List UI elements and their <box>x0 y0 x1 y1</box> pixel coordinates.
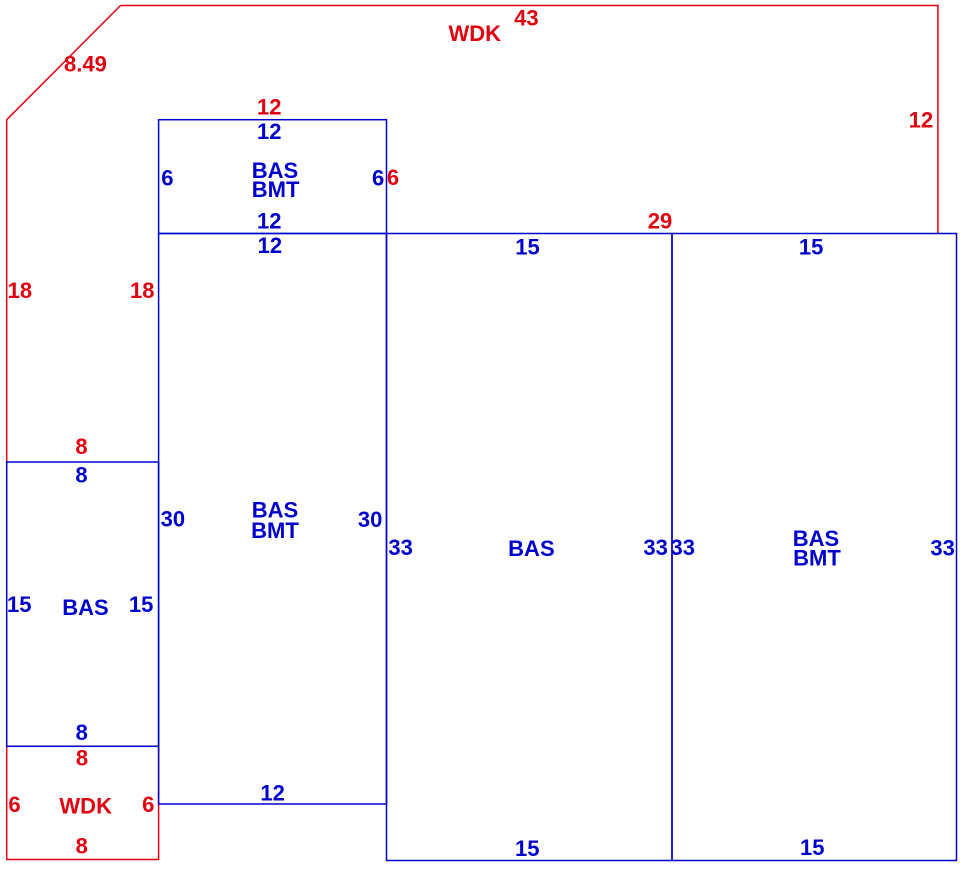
svg-text:BMT: BMT <box>252 177 300 202</box>
svg-text:18: 18 <box>130 278 154 303</box>
left BAS box (blue) <box>7 462 159 746</box>
svg-text:8: 8 <box>76 746 88 771</box>
svg-text:BMT: BMT <box>793 546 841 571</box>
svg-text:BMT: BMT <box>251 518 299 543</box>
svg-text:29: 29 <box>648 209 672 234</box>
svg-text:8: 8 <box>75 434 87 459</box>
WDK bottom-left deck box (red) <box>7 746 159 859</box>
central BAS box (blue) <box>387 234 673 861</box>
svg-text:6: 6 <box>142 792 154 817</box>
svg-text:30: 30 <box>358 507 382 532</box>
svg-text:6: 6 <box>161 165 173 190</box>
deck outline WDK: diagonal and left edge <box>7 6 121 463</box>
svg-text:33: 33 <box>388 535 412 560</box>
svg-text:15: 15 <box>515 234 539 259</box>
svg-text:12: 12 <box>909 108 933 133</box>
svg-text:12: 12 <box>257 119 281 144</box>
svg-text:15: 15 <box>800 835 824 860</box>
svg-text:6: 6 <box>372 165 384 190</box>
svg-text:30: 30 <box>161 506 185 531</box>
svg-text:8.49: 8.49 <box>64 51 107 76</box>
svg-text:BAS: BAS <box>508 536 554 561</box>
svg-text:8: 8 <box>75 462 87 487</box>
top small BAS BMT box (blue) <box>159 120 387 234</box>
middle tall BAS BMT column (blue) <box>159 234 387 805</box>
svg-text:12: 12 <box>257 209 281 234</box>
svg-text:15: 15 <box>515 836 539 861</box>
svg-text:33: 33 <box>930 536 954 561</box>
right BAS BMT box (blue) <box>672 234 957 861</box>
svg-text:18: 18 <box>8 278 32 303</box>
svg-text:6: 6 <box>8 792 20 817</box>
svg-text:15: 15 <box>129 592 153 617</box>
svg-text:6: 6 <box>387 165 399 190</box>
deck outline WDK top (red): top edge and right edge <box>121 6 938 234</box>
svg-text:43: 43 <box>514 5 538 30</box>
svg-text:15: 15 <box>799 234 823 259</box>
svg-text:15: 15 <box>7 592 31 617</box>
svg-text:33: 33 <box>643 535 667 560</box>
svg-text:8: 8 <box>76 720 88 745</box>
svg-text:WDK: WDK <box>449 21 502 46</box>
svg-text:12: 12 <box>257 95 281 120</box>
svg-text:BAS: BAS <box>62 595 108 620</box>
svg-text:8: 8 <box>76 833 88 858</box>
svg-text:12: 12 <box>260 781 284 806</box>
svg-text:33: 33 <box>671 535 695 560</box>
svg-text:WDK: WDK <box>59 793 112 818</box>
svg-text:12: 12 <box>258 233 282 258</box>
